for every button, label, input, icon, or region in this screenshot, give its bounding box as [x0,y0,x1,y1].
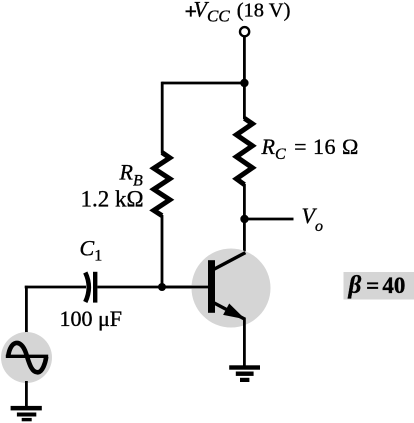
svg-text:100 μF: 100 μF [60,306,123,331]
wire Vcc terminal to top junction [243,36,246,83]
wire source to ground [25,381,28,407]
wire RB branch upper [161,82,164,154]
wire top horizontal to RB branch [162,82,245,85]
Vcc terminal circle [240,27,249,36]
ground (emitter) [229,365,260,382]
capacitor C1 [85,272,95,303]
wire capacitor to base [97,286,208,289]
svg-text:1.2 kΩ: 1.2 kΩ [81,186,144,211]
wire RC to collector [243,184,246,254]
ac source [1,332,52,383]
node top junction [240,79,248,87]
wire base [162,286,209,289]
wire source branch [25,286,28,336]
ground (source) [11,406,42,421]
node Vo junction [240,215,248,223]
wire RC branch upper [243,83,246,119]
wire RB branch lower [161,215,164,287]
wire Vo stub [245,218,294,221]
wire emitter to ground [243,318,246,367]
transistor Q1 [192,249,271,328]
resistor RB [154,153,170,216]
wire input left segment [25,286,86,289]
resistor RC [236,118,252,184]
beta box [344,272,414,300]
node base junction [158,283,166,291]
svg-text:β = 40: β = 40 [348,272,406,299]
